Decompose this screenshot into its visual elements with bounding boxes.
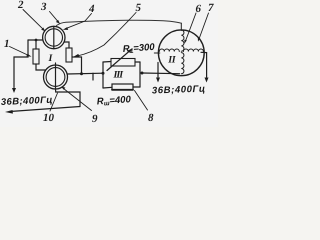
block III left rail [102,62,104,88]
resistor 1 [33,49,39,64]
resistor Rsh thick bottom edge [112,89,133,91]
svg-text:3: 3 [40,1,47,13]
resistor Rsh [112,84,133,90]
svg-text:9: 9 [92,113,98,125]
leader 7 [198,13,209,42]
wire motor left winding stub [154,52,160,54]
arrow motor left supply [156,78,160,83]
wire supply left leg [14,40,28,88]
arrow supply left down [12,88,16,93]
motor II bottom winding [181,53,184,74]
leader 6 [184,13,196,44]
block III top branch right lead [135,61,140,63]
leader 10 [50,93,58,111]
wire block III output to motor bottom winding [142,72,180,75]
wire motor left terminal down [157,63,159,78]
svg-text:5: 5 [136,2,142,14]
block III top branch lead [103,61,111,64]
wire right terminal of upper unit [64,42,69,48]
arrow supply bottom long left [5,107,80,114]
wire motor top drop [180,23,182,30]
stub wire [92,73,94,80]
leader 5 [74,13,137,57]
resistor 1 bottom lead wire [36,64,46,70]
wire lower unit output bus to block III [67,72,103,75]
wire motor right terminal down [201,52,207,77]
rheostat arrow [107,48,133,70]
svg-text:7: 7 [208,2,214,14]
wire top from unit I to motor II [57,20,182,25]
wire left terminal of upper unit [28,39,43,41]
motor II top winding [181,30,184,51]
leader 2 [23,10,45,32]
motor II right winding [183,49,203,52]
leader 9 [61,87,92,111]
resistor 5 (right) [66,48,72,62]
svg-text:1: 1 [4,38,10,50]
synchro I lower unit [44,63,68,89]
wire lower unit bottom lead [56,89,81,107]
svg-text:2: 2 [17,0,24,11]
svg-text:6: 6 [196,3,202,15]
motor II left winding [159,49,179,52]
block III bottom branch lead right [133,86,140,88]
resistor 1 top lead [35,40,37,49]
wire from right resistor to lower bus [72,57,82,74]
motor II housing [158,30,204,76]
leader 4 [63,14,92,30]
leader 8 [135,91,148,111]
leader 3 [50,12,61,24]
node junction dot on bus [80,72,83,75]
node junction dot at III output [141,72,144,75]
svg-text:10: 10 [43,112,55,124]
block III right rail [139,62,141,87]
svg-text:36В;400Гц: 36В;400Гц [1,95,53,108]
arrow motor right supply [205,78,209,83]
block III bottom branch lead left [103,86,112,89]
leader 1 [10,47,32,57]
synchro I upper unit [43,26,65,48]
rheostat of block III [111,59,135,67]
node junction dot at III input [102,72,105,75]
node junction dot left [35,39,38,42]
svg-text:36В;400Гц: 36В;400Гц [152,84,206,97]
svg-text:8: 8 [148,112,154,124]
svg-text:4: 4 [88,3,95,15]
